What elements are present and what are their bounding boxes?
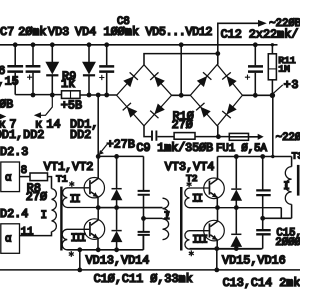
svg-text:T1: T1 (56, 173, 68, 184)
diode VD16 (231, 208, 241, 249)
wire bridge tops link y=53.6 (144, 54, 218, 65)
transistor VT1 (84, 156, 104, 207)
svg-text:II: II (70, 194, 81, 206)
svg-text:I: I (41, 210, 47, 222)
wire gate8 to R8 (20, 176, 31, 178)
wire collector rail T1 y=156.4 (98, 155, 143, 157)
svg-text:1ØØmk: 1ØØmk (104, 25, 139, 39)
svg-text:,15: ,15 (0, 75, 19, 89)
svg-text:C13,C14 2mk: C13,C14 2mk (223, 276, 300, 290)
capacitor C9 (152, 131, 156, 141)
svg-text:C12: C12 (221, 27, 242, 41)
wire to ~220B top arrow (218, 23, 258, 53)
wire stub to bottom bus (79, 250, 81, 270)
capacitor C10 (138, 156, 150, 218)
fuse FU1 (229, 133, 258, 140)
diode VD12 (bottom-right arm) (222, 104, 237, 119)
svg-text:1k: 1k (61, 77, 75, 91)
svg-text:к: к (35, 118, 42, 132)
diode VD3 (46, 45, 58, 95)
svg-text:VD4: VD4 (75, 25, 96, 39)
transformer T3 winding I (285, 167, 291, 205)
label star T2 bottom (189, 250, 194, 256)
arrow ~220 bottom (258, 134, 264, 140)
svg-text:+5B: +5B (61, 98, 82, 112)
label star T1 top (69, 181, 74, 187)
svg-text:D2.4: D2.4 (0, 207, 28, 221)
svg-text:VD15,VD16: VD15,VD16 (222, 254, 286, 268)
diode VD15 (231, 157, 241, 208)
svg-text:2Ømk: 2Ømk (18, 25, 46, 39)
svg-text:C1Ø,C11 Ø,33mk: C1Ø,C11 Ø,33mk (94, 272, 193, 286)
transformer T1 core (60, 187, 62, 251)
svg-text:VD3: VD3 (48, 25, 69, 39)
svg-text:C7: C7 (0, 25, 14, 39)
transformer T1 winding III (62, 229, 143, 250)
wire T1 emitter rail y=249.8 (67, 236, 143, 250)
svg-text:III: III (71, 233, 86, 245)
gate DD2.3 (1, 162, 20, 192)
svg-text:+3: +3 (284, 78, 300, 92)
wire mid rail T2 to T3 (280, 208, 282, 219)
diode VD9 (top-left arm) (197, 72, 212, 87)
svg-text:VT3,VT4: VT3,VT4 (165, 160, 215, 174)
svg-text:8: 8 (21, 165, 27, 177)
wire right output y=95.3 (242, 94, 272, 96)
svg-text:27Ø: 27Ø (172, 118, 193, 132)
resistor R11 (268, 45, 276, 96)
diode VD13 (112, 156, 122, 207)
svg-text:27Ø: 27Ø (26, 190, 47, 204)
diode VD6 (top-right arm) (150, 72, 165, 87)
wire T2 emitter rail y=248.6 (190, 248, 263, 250)
svg-text:α: α (5, 173, 12, 185)
arrow 0B left edge (0, 114, 6, 120)
capacitor C11 (138, 218, 150, 249)
arrow ~220B top (258, 20, 267, 27)
wire T2 collector rail y=156.5 (218, 95, 273, 156)
svg-text:FU1 Ø,5A: FU1 Ø,5A (216, 143, 268, 155)
wire top rail (0, 44, 278, 46)
diode VD11 (bottom-left arm) (196, 103, 211, 118)
diode VD7 (bottom-left arm) (123, 103, 138, 118)
wire bottom bus (0, 269, 300, 271)
resistor R8 (30, 173, 48, 181)
svg-text:~22ØB: ~22ØB (269, 18, 300, 30)
transformer T2 winding I (163, 198, 169, 239)
svg-text:1M: 1M (278, 64, 290, 75)
transistor VT2 (84, 208, 105, 250)
svg-text:VT1,VT2: VT1,VT2 (44, 160, 94, 174)
capacitor C7 (x=33) (26, 45, 41, 95)
wire T3 lower link y=218.3 (263, 204, 292, 218)
svg-text:D2.3: D2.3 (0, 145, 28, 159)
plus mark C12 (245, 75, 250, 80)
resistor R9 (62, 91, 81, 99)
resistor R10 (174, 133, 195, 140)
svg-text:VD5...VD12: VD5...VD12 (146, 25, 213, 39)
svg-text:2ØØØ: 2ØØØ (275, 237, 300, 249)
bridge VD9-VD12 right diamond (190, 65, 242, 126)
svg-text:VD13,VD14: VD13,VD14 (86, 254, 150, 268)
label star T2 top (187, 181, 192, 187)
svg-text:+27B: +27B (107, 137, 135, 151)
svg-text:14: 14 (46, 118, 60, 132)
capacitor C14 (256, 218, 271, 248)
transformer T1 winding II (63, 188, 163, 208)
capacitor C12 (248, 45, 263, 96)
transformer T2 winding III (185, 231, 262, 249)
transformer T2 core (180, 187, 183, 251)
svg-text:11: 11 (21, 226, 34, 238)
svg-text:DD2: DD2 (70, 128, 91, 142)
plus mark C8 (99, 75, 104, 80)
svg-text:T2: T2 (186, 173, 198, 184)
diode VD4 (83, 45, 95, 95)
diode VD10 (top-right arm) (222, 72, 237, 87)
wire +30 tap (273, 85, 283, 94)
transistor VT4 (204, 208, 225, 249)
wire +27B arrow (102, 145, 107, 152)
arrow +5B tap (41, 95, 53, 115)
plus mark C7 (27, 75, 32, 80)
wire bridge bottoms y=136.6 (144, 126, 229, 137)
transformer T2 winding II (185, 188, 282, 208)
wire mid rail y=207.6 (98, 207, 162, 209)
svg-text:I: I (283, 181, 289, 193)
transistor VT3 (204, 157, 225, 208)
wire C10C11 tap to T2 winding I (144, 217, 163, 219)
wire R8 to winding I (48, 177, 52, 189)
transformer T3 core (297, 165, 300, 196)
svg-text:T3: T3 (292, 150, 300, 161)
diode VD8 (bottom-right arm) (150, 104, 165, 119)
svg-text:ØB: ØB (0, 98, 13, 112)
capacitor C13 (256, 157, 271, 219)
svg-text:C9 1mk/35ØB: C9 1mk/35ØB (136, 141, 213, 155)
diode VD14 (112, 208, 122, 250)
svg-text:III: III (192, 234, 207, 246)
wire +27B feed x=98.2 (97, 95, 99, 156)
bridge VD5-VD8 left diamond (117, 65, 172, 126)
diode VD5 (top-left arm) (123, 72, 138, 87)
wire lower-left bus y=95 (15, 94, 116, 96)
svg-text:I: I (164, 211, 170, 223)
wire gate11 to winding I bottom (20, 232, 52, 236)
label star T1 bottom (69, 251, 74, 257)
capacitor C6 (left, x=15.2) (7, 45, 23, 95)
capacitor C8 (99, 45, 114, 95)
gate DD2.4 (1, 224, 20, 254)
transformer T1 winding I (52, 189, 57, 232)
svg-text:~22Ø: ~22Ø (276, 132, 300, 144)
wire T3 upper link (273, 157, 292, 167)
wire bridge mid vertical x=181.2 (172, 45, 191, 96)
svg-text:α: α (5, 234, 12, 246)
svg-text:II: II (192, 194, 203, 206)
wire T2 stub to bottom bus (216, 249, 218, 270)
